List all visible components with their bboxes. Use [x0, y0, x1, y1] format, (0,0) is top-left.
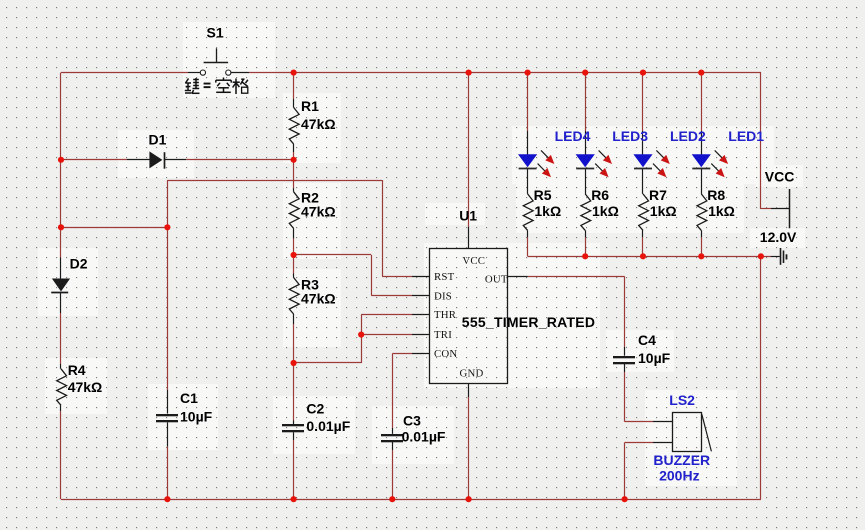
svg-text:LS2: LS2 — [669, 392, 695, 408]
svg-text:R6: R6 — [591, 187, 609, 203]
svg-text:S1: S1 — [207, 25, 224, 41]
svg-text:10µF: 10µF — [638, 350, 671, 366]
svg-text:THR: THR — [434, 309, 457, 321]
svg-text:0.01µF: 0.01µF — [306, 418, 350, 434]
svg-text:47kΩ: 47kΩ — [68, 379, 103, 395]
svg-text:1kΩ: 1kΩ — [708, 203, 735, 219]
svg-text:C4: C4 — [638, 332, 656, 348]
svg-text:BUZZER: BUZZER — [653, 452, 710, 468]
svg-text:200Hz: 200Hz — [659, 468, 699, 484]
svg-text:VCC: VCC — [462, 255, 485, 267]
svg-text:VCC: VCC — [765, 169, 795, 185]
svg-text:GND: GND — [460, 368, 484, 380]
svg-text:R8: R8 — [707, 187, 725, 203]
svg-text:47kΩ: 47kΩ — [301, 291, 336, 307]
svg-text:47kΩ: 47kΩ — [301, 116, 336, 132]
svg-text:LED1: LED1 — [728, 128, 764, 144]
svg-text:10µF: 10µF — [180, 409, 213, 425]
svg-text:1kΩ: 1kΩ — [650, 203, 677, 219]
svg-text:C3: C3 — [403, 413, 421, 429]
svg-text:D2: D2 — [70, 256, 88, 272]
svg-text:R1: R1 — [301, 98, 319, 114]
svg-text:1kΩ: 1kΩ — [592, 203, 619, 219]
svg-text:LED2: LED2 — [670, 128, 706, 144]
svg-text:LED4: LED4 — [555, 128, 591, 144]
svg-text:LED3: LED3 — [612, 128, 648, 144]
svg-text:R4: R4 — [68, 362, 86, 378]
svg-text:R7: R7 — [649, 187, 667, 203]
svg-text:47kΩ: 47kΩ — [301, 204, 336, 220]
svg-text:12.0V: 12.0V — [760, 229, 797, 245]
svg-text:CON: CON — [434, 348, 457, 360]
svg-text:DIS: DIS — [434, 290, 452, 302]
svg-text:U1: U1 — [459, 208, 477, 224]
svg-text:RST: RST — [434, 271, 455, 283]
svg-text:C2: C2 — [306, 401, 324, 417]
svg-text:555_TIMER_RATED: 555_TIMER_RATED — [462, 314, 595, 330]
svg-text:0.01µF: 0.01µF — [402, 428, 446, 444]
svg-text:TRI: TRI — [434, 329, 452, 341]
svg-text:C1: C1 — [180, 390, 198, 406]
svg-text:1kΩ: 1kΩ — [534, 203, 561, 219]
svg-text:D1: D1 — [149, 132, 167, 148]
svg-text:OUT: OUT — [485, 274, 508, 286]
svg-text:R5: R5 — [534, 187, 552, 203]
